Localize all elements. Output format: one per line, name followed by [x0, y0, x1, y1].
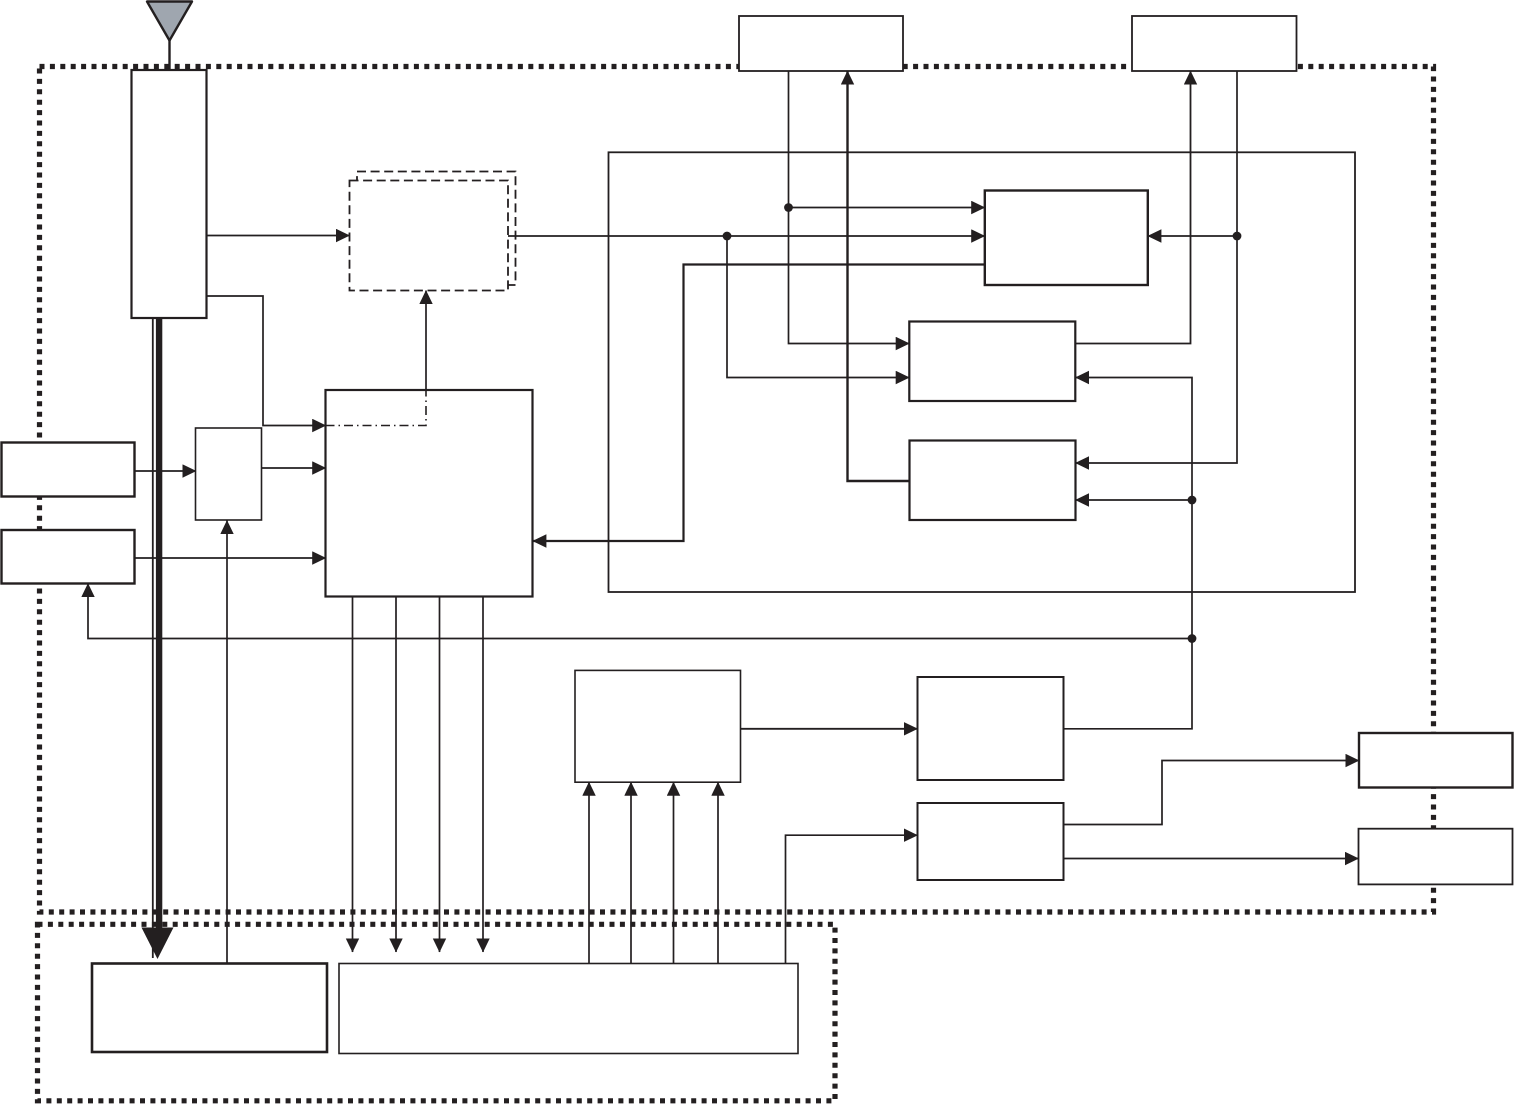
wire block15 to block16b — [1064, 858, 1359, 860]
mixer dashed block (front) — [350, 181, 509, 291]
wire RF out to mixer — [207, 235, 350, 237]
outer dotted boundary (receiver IC) — [40, 67, 1434, 913]
wire mixer out to box A — [508, 235, 985, 237]
wire block17b up to block 15 — [786, 835, 918, 963]
wire box A to block 12 — [533, 265, 985, 542]
block 17a (bottom left) — [92, 964, 327, 1053]
wire block13 to block14 — [741, 728, 918, 730]
wire block12 down 4 — [482, 597, 484, 953]
wire block12 down 1 — [352, 597, 354, 953]
wire top box2 down to box C — [1076, 71, 1238, 463]
wire node4 to box C right input — [1076, 499, 1193, 501]
wire block17b up to block13 in1 — [588, 782, 590, 963]
bold arrow RF down to block17a — [142, 318, 174, 959]
wire block14 up to box B right input — [1064, 378, 1193, 729]
RF front-end block (tall) — [132, 70, 207, 318]
junction node 1 — [784, 203, 793, 212]
wire box C up to top box1 — [848, 71, 910, 481]
left box 1 — [2, 443, 135, 497]
wire left box1 to block 11 — [135, 470, 197, 472]
wire left box2 to block 12 — [135, 557, 326, 559]
small block 11 — [196, 428, 262, 520]
junction node 5 — [1188, 634, 1197, 643]
inner dotted boundary (baseband section) — [38, 924, 836, 1101]
wire RF lower out to block 12 — [207, 296, 326, 426]
wire node2 down to box B input — [727, 236, 909, 378]
block 16a (right top) — [1359, 733, 1513, 788]
mixer dashed block (back) — [357, 172, 516, 286]
wire block12 down 2 — [395, 597, 397, 953]
antenna — [147, 2, 192, 71]
wire block12 down 3 — [439, 597, 441, 953]
top box 2 — [1132, 16, 1297, 71]
block 16b (right bottom) — [1359, 829, 1513, 885]
junction node 3 — [1233, 232, 1242, 241]
dash-dot LO path inside block 12 — [326, 390, 427, 426]
wire block17b up to block13 in2 — [630, 782, 632, 963]
wire block17b up to block13 in3 — [673, 782, 675, 963]
wire box B up to top box2 — [1076, 71, 1191, 344]
junction node 4 — [1188, 496, 1197, 505]
wire block 12 up to mixer — [425, 291, 427, 391]
wire top box1 down to box B input — [789, 71, 910, 344]
wire node5 long left up to left box2 — [88, 584, 1192, 639]
box C (inside container, bottom) — [910, 441, 1076, 521]
block 17b (bottom wide) — [339, 964, 798, 1054]
block 15 — [918, 803, 1064, 880]
wire RF thin line down to block17a — [152, 318, 154, 958]
wire block 11 to block 12 — [262, 467, 326, 469]
junction node 2 — [723, 232, 732, 241]
box A (inside container, top) — [985, 191, 1148, 286]
top box 1 — [739, 16, 903, 71]
block 14 — [918, 677, 1064, 780]
wire node1 to box A input — [789, 207, 985, 209]
box B (inside container, middle) — [909, 322, 1075, 402]
synthesizer container — [609, 152, 1356, 592]
wire block15 to block16a — [1064, 761, 1360, 825]
wire block17b up to block13 in4 — [717, 782, 719, 963]
left box 2 — [2, 530, 135, 584]
large block 12 (demodulator) — [326, 390, 533, 597]
block 13 — [575, 670, 741, 782]
wire block17a up to block 11 — [226, 521, 228, 964]
wire node3 to box A right input — [1148, 235, 1237, 237]
